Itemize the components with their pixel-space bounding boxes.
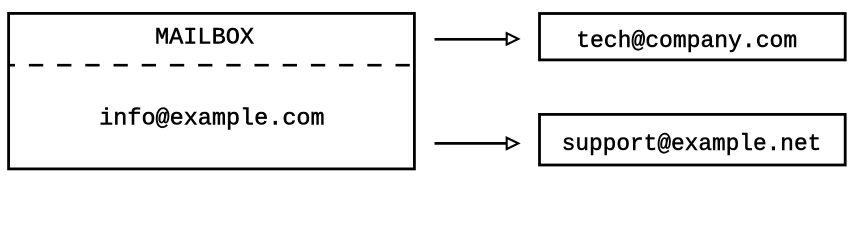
mailbox node outer box [9,13,415,169]
svg-text:support@example.net: support@example.net [562,131,822,157]
arrowhead: top open triangle [507,33,519,44]
dashed separator line inside mailbox box [8,64,415,67]
wire: top arrow shaft [435,38,507,41]
svg-text:MAILBOX: MAILBOX [155,25,254,51]
box support@example.net [540,114,846,165]
svg-text:info@example.com: info@example.com [99,106,324,132]
arrowhead: bottom open triangle [507,138,519,149]
box tech@company.com [540,14,846,60]
wire: bottom arrow shaft [435,142,507,145]
svg-text:tech@company.com: tech@company.com [576,28,797,54]
